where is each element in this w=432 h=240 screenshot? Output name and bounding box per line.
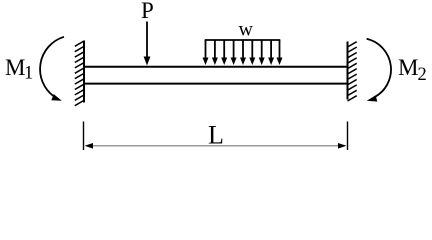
hatching left wall	[75, 41, 84, 106]
svg-text:w: w	[239, 19, 254, 41]
dimension line L with arrowheads	[85, 143, 347, 149]
beam bottom edge	[84, 83, 348, 85]
load arrow 4	[233, 40, 235, 59]
moment arrow M2	[367, 39, 391, 102]
load arrow 2	[214, 40, 216, 59]
dimension extension line right	[347, 122, 349, 151]
load arrow 1	[205, 40, 207, 59]
fixed support wall right	[347, 42, 349, 100]
load arrow 5	[242, 40, 244, 59]
hatching right wall	[348, 42, 357, 101]
beam top edge	[84, 66, 348, 68]
load arrow 9	[279, 40, 281, 59]
point load P arrow	[144, 22, 151, 66]
load bar	[205, 39, 281, 41]
load arrow 7	[261, 40, 263, 59]
load arrow 3	[223, 40, 225, 59]
svg-text:L: L	[208, 121, 224, 150]
dimension extension line left	[83, 122, 85, 151]
fixed support wall left	[83, 41, 85, 103]
svg-text:P: P	[141, 0, 154, 23]
moment arrow M1	[40, 37, 64, 101]
distributed load w	[203, 40, 283, 65]
load arrow 6	[251, 40, 253, 59]
load arrow 8	[270, 40, 272, 59]
